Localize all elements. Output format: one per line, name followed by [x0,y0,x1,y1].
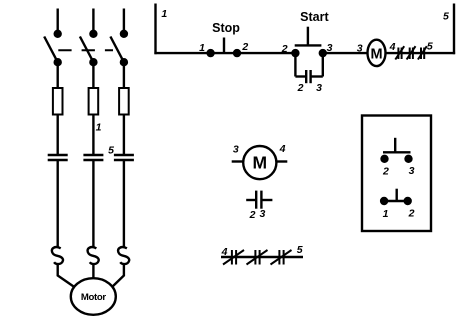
svg-text:Stop: Stop [212,21,240,35]
overload heater OL1 [52,247,63,264]
phase L1 top contact [55,31,61,37]
wire F1 to contactor contact [57,115,59,156]
phase L1 hinge contact [55,59,61,65]
contactor coil M [368,40,386,66]
stop pushbutton PB1 (NC) [208,38,240,57]
svg-text:3: 3 [233,143,239,155]
svg-text:1: 1 [199,42,205,54]
svg-text:3: 3 [316,82,322,94]
wire OL3 to motor [111,264,124,289]
contactor M power contact pole 3 [114,155,134,160]
phase L2 supply stub [92,9,94,33]
svg-text:1: 1 [161,8,167,20]
svg-text:2: 2 [408,208,415,220]
svg-text:5: 5 [443,11,449,23]
svg-text:Start: Start [300,10,329,24]
phase L2 hinge contact [90,59,96,65]
svg-text:2: 2 [297,82,304,94]
phase L3 hinge contact [121,59,127,65]
phase L1 supply stub [57,9,59,33]
wire coil to rail 5 [386,52,456,54]
wire contact to OL heater 1 [57,160,59,248]
wire rail to stop button [154,52,210,54]
disconnect switch blade pole 1 [44,37,58,63]
svg-text:2: 2 [249,209,256,221]
wire L2 switch to fuse F2 [92,62,94,88]
start pushbutton contacts (NO) in station [382,138,412,162]
overload contact OL1 (NC) [395,46,404,59]
wire contact to OL heater 2 [92,160,94,248]
svg-text:1: 1 [383,208,389,220]
phase L3 top contact [121,31,127,37]
wire start branch left [294,53,296,76]
fuse F1 [53,88,63,115]
overload heater assembly wire [221,256,303,258]
motor M [71,278,116,315]
fuse F2 [89,88,99,115]
wire start to coil [323,52,368,54]
svg-text:Motor: Motor [81,292,107,303]
svg-text:2: 2 [241,41,248,53]
svg-text:4: 4 [389,41,396,53]
phase L2 top contact [90,31,96,37]
disconnect switch blade pole 2 [80,37,94,63]
wire F2 to contactor contact [92,115,94,156]
overload heater OL2 [88,247,99,264]
overload contact OL2 (NC) [407,46,416,59]
wire L1 switch to fuse F1 [57,62,59,88]
wire L3 switch to fuse F3 [123,62,125,88]
svg-text:4: 4 [221,246,228,258]
svg-text:2: 2 [281,43,288,55]
svg-text:M: M [370,47,382,63]
svg-text:3: 3 [357,42,363,54]
svg-text:5: 5 [427,40,433,52]
wire aux contact to branch [311,75,323,77]
stop pushbutton contacts (NC) in station [381,189,411,204]
contactor M power contact pole 2 [83,155,103,160]
aux contact M (component detail) [246,191,272,209]
wire contact to OL heater 3 [123,160,125,248]
overload heater OL detail 3 [271,250,292,265]
wire start branch right [322,53,324,76]
svg-text:M: M [253,153,268,173]
svg-text:5: 5 [108,145,114,157]
wire OL1 to motor [58,264,77,289]
wire OL2 to motor [92,264,94,280]
fuse F3 [119,88,129,115]
overload heater OL3 [118,247,129,264]
auxiliary contact M (seal-in) [306,70,310,83]
svg-text:3: 3 [259,208,265,220]
wire F3 to contactor contact [123,115,125,156]
pushbutton station enclosure [362,116,431,232]
control rail node 1 (left) [154,4,156,55]
phase L3 supply stub [123,9,125,33]
overload contact OL3 (NC) [418,46,427,59]
disconnect switch blade pole 3 [110,37,124,63]
overload heater OL detail 1 [223,250,244,265]
control rail node 5 (right) [453,4,455,55]
wire stop to start [237,52,295,54]
wire branch to aux contact [295,75,306,77]
svg-text:4: 4 [279,143,286,155]
svg-text:1: 1 [96,122,102,134]
svg-text:5: 5 [297,244,303,256]
start pushbutton PB2 (NO) [292,27,325,56]
overload heater OL detail 2 [247,250,268,265]
contactor M power contact pole 1 [48,155,68,160]
svg-text:3: 3 [409,165,415,177]
contactor coil M (component detail) [232,146,288,179]
svg-text:2: 2 [382,166,389,178]
mechanical linkage of disconnect (dashed) [58,49,113,51]
